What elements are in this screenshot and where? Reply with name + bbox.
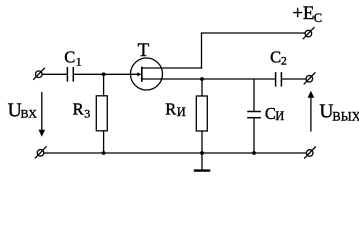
wire Cи bottom lead: [253, 118, 255, 153]
wire drain vertical: [201, 32, 203, 68]
svg-text:R: R: [165, 100, 176, 119]
node gate R3 junction: [102, 72, 106, 76]
capacitor Cи: [247, 112, 261, 118]
node Rи ground junction: [200, 151, 204, 155]
terminal output top: [304, 72, 316, 84]
wire Cи top lead: [253, 79, 255, 111]
wire drain horizontal: [160, 67, 202, 69]
resistor Rи: [196, 96, 207, 131]
wire input to C1: [42, 73, 67, 75]
arrow Uвх down: [39, 92, 46, 137]
wire C1 to gate: [74, 73, 139, 75]
resistor R3: [96, 96, 107, 131]
terminal +Ec: [303, 27, 315, 39]
wire bottom rail: [44, 152, 307, 154]
terminal input bottom: [35, 146, 47, 158]
svg-text:ВЫХ: ВЫХ: [332, 109, 359, 123]
svg-text:R: R: [73, 99, 84, 118]
svg-text:C: C: [265, 104, 276, 123]
transistor T: [131, 58, 163, 90]
svg-text:ВХ: ВХ: [21, 106, 38, 120]
svg-text:T: T: [138, 40, 150, 61]
terminal output bottom: [304, 147, 316, 159]
svg-text:C: C: [64, 47, 75, 66]
svg-text:3: 3: [84, 106, 90, 120]
wire top supply: [201, 32, 305, 34]
svg-text:И: И: [177, 105, 186, 119]
svg-text:И: И: [275, 109, 284, 123]
node Cи bottom junction: [252, 151, 256, 155]
terminal input top: [33, 68, 45, 80]
wire R3 bottom lead: [103, 131, 105, 153]
ground: [194, 153, 211, 171]
svg-text:U: U: [319, 102, 333, 123]
svg-text:1: 1: [76, 54, 82, 68]
node R3 bottom junction: [102, 151, 106, 155]
wire R3 top lead: [103, 74, 105, 96]
wire source line: [160, 78, 275, 80]
arrow Uвых up: [308, 91, 315, 132]
capacitor C2: [276, 72, 282, 87]
capacitor C1: [67, 67, 73, 82]
wire Rи bottom lead: [201, 131, 203, 153]
svg-text:2: 2: [281, 53, 287, 67]
wire C2 to output: [282, 78, 306, 80]
svg-text:+E: +E: [292, 3, 314, 24]
svg-text:C: C: [314, 11, 322, 25]
svg-text:C: C: [270, 48, 281, 67]
node source Rи junction: [200, 77, 204, 81]
wire Rи top lead: [201, 79, 203, 96]
